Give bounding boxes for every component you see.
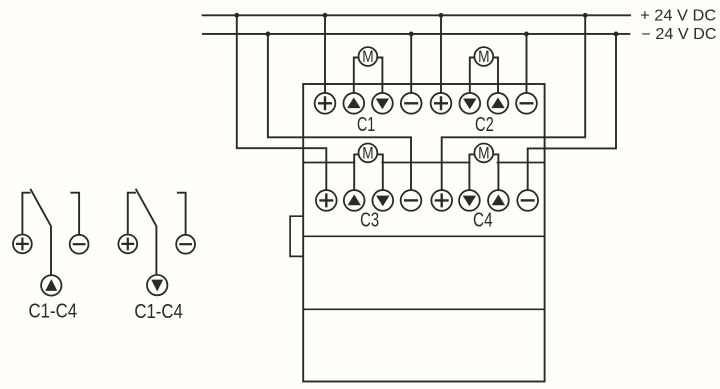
motor M1 [359, 47, 378, 66]
motor M3 lead left [354, 154, 359, 190]
motor M4 mask [470, 156, 496, 169]
terminal C4 plus [431, 190, 452, 211]
svg-text:C3: C3 [360, 210, 379, 232]
motor M3 lead right [377, 154, 383, 190]
switch 1 plus wire [22, 193, 30, 235]
svg-text:+ 24 V DC: + 24 V DC [640, 7, 716, 24]
+24V rail [202, 14, 631, 16]
switch 1 minus terminal [70, 235, 89, 254]
motor M2 [474, 47, 493, 66]
terminal C4 down [459, 190, 480, 211]
wire + rail to C3 plus terminal [237, 15, 326, 190]
switch 2 minus terminal [176, 235, 195, 254]
motor M1 lead left [354, 58, 359, 94]
svg-text:C4: C4 [473, 210, 493, 232]
switch 1 up-output terminal [41, 275, 61, 295]
motor M4 [474, 144, 493, 163]
module divider 3 [303, 308, 544, 310]
motor M3 mask [355, 156, 381, 169]
svg-text:C2: C2 [475, 114, 494, 136]
switch 2 down-output terminal [147, 275, 167, 295]
motor M2 lead right [493, 58, 498, 94]
terminal C4 up [488, 190, 509, 211]
junction dot rail1 a [234, 13, 239, 18]
svg-text:M: M [478, 48, 489, 66]
module divider 1 [303, 162, 544, 164]
terminal C1 plus [315, 93, 336, 114]
terminal C3 minus [401, 190, 422, 211]
terminal C2 plus [431, 93, 452, 114]
terminal C3 plus [316, 190, 337, 211]
-24V rail [202, 33, 630, 35]
junction dot rail2 d [614, 32, 619, 37]
motor M3 [359, 144, 378, 163]
wire rail1 to C2 plus [440, 15, 442, 93]
wire rail1 to C1 plus [324, 15, 326, 93]
junction dot rail2 a [266, 32, 271, 37]
wire + rail to C4 plus terminal [442, 15, 586, 190]
switch 1 blade [30, 189, 51, 275]
switch 1 plus terminal [13, 235, 32, 254]
terminal C3 down [372, 190, 393, 211]
junction dot rail2 b [409, 32, 414, 37]
junction dot rail1 d [583, 13, 588, 18]
switch 1 minus wire [70, 193, 79, 235]
module outline [303, 84, 544, 382]
terminal C1 down [372, 93, 393, 114]
switch 2 plus wire [128, 193, 136, 235]
wire rail2 to C1 minus [410, 34, 412, 93]
motor M4 lead left [469, 154, 475, 190]
svg-text:M: M [362, 48, 373, 66]
terminal C1 minus [401, 93, 422, 114]
module divider 2 [303, 235, 544, 237]
svg-text:− 24 V DC: − 24 V DC [642, 26, 717, 43]
motor M2 lead left [470, 58, 475, 94]
switch 2 plus terminal [118, 235, 137, 254]
wire - rail to C4 minus terminal [528, 34, 616, 190]
switch 2 minus wire [177, 193, 186, 235]
svg-text:M: M [478, 145, 489, 163]
svg-text:C1-C4: C1-C4 [29, 300, 78, 323]
terminal C2 up [488, 93, 509, 114]
module mounting tab [290, 216, 303, 256]
svg-text:C1-C4: C1-C4 [134, 300, 183, 323]
motor M1 lead right [377, 58, 382, 94]
terminal C1 up [343, 93, 364, 114]
junction dot rail1 c [439, 13, 444, 18]
switch 2 blade [136, 189, 157, 275]
terminal C2 minus [516, 93, 537, 114]
wire - rail to C3 minus terminal [268, 34, 411, 190]
terminal C2 down [459, 93, 480, 114]
junction dot rail2 c [524, 32, 529, 37]
terminal C4 minus [517, 190, 538, 211]
wire rail2 to C2 minus [526, 34, 528, 93]
motor M4 lead right [493, 154, 499, 190]
svg-text:C1: C1 [357, 114, 375, 136]
junction dot rail1 b [323, 13, 328, 18]
terminal C3 up [344, 190, 365, 211]
svg-text:M: M [362, 145, 373, 163]
